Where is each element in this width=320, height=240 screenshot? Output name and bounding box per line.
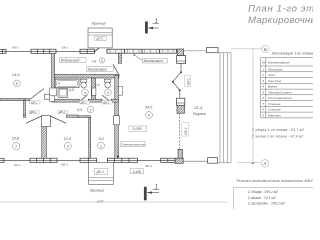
table rows (261, 67, 292, 117)
wall V3 lower (115, 125, 119, 159)
svg-text:ДН-1: ДН-1 (95, 37, 103, 41)
label Kanalizatsia 2 with leader (133, 54, 167, 63)
room circle 1 (98, 142, 105, 149)
svg-text:8,9: 8,9 (77, 108, 82, 112)
label OK-2 rotated upper (185, 75, 191, 86)
wall V2 (91, 78, 95, 99)
svg-text:ДВ-1: ДВ-1 (58, 110, 66, 114)
svg-text:15,8: 15,8 (12, 136, 20, 140)
svg-text:3: 3 (107, 91, 110, 95)
wall V3 main (115, 75, 119, 115)
terrace top edge (184, 50, 207, 52)
svg-text:А: А (263, 161, 267, 166)
window OK-2 dashed (179, 113, 181, 149)
wall H1 (55, 74, 119, 78)
svg-text:Ванна: Ванна (268, 85, 277, 89)
window bottom mid (107, 158, 137, 162)
svg-text:ОК-2: ОК-2 (186, 78, 190, 85)
terrace pier bottom (208, 158, 218, 164)
svg-text:Σ застройки - 145,2 м2: Σ застройки - 145,2 м2 (247, 202, 285, 206)
svg-text:Спальня: Спальня (268, 102, 281, 106)
window top far-left (0, 49, 6, 53)
svg-text:8: 8 (262, 108, 264, 112)
svg-text:План 1-го этажа: План 1-го этажа (248, 4, 313, 15)
label DV-1 a (30, 101, 40, 105)
window bottom mid-left (80, 158, 97, 162)
boxes on V1 (50, 88, 57, 102)
terrace bottom edge (183, 160, 207, 162)
section marker bottom (144, 187, 159, 200)
door leaf room3 (102, 95, 111, 102)
svg-text:ОК-1: ОК-1 (14, 163, 21, 167)
door jamb (106, 49, 108, 53)
svg-text:34,5: 34,5 (145, 104, 154, 109)
svg-text:Электричество: Электричество (122, 143, 146, 147)
kitchen sink (118, 86, 122, 95)
svg-text:21,4: 21,4 (193, 105, 203, 110)
terrace step lines (218, 53, 231, 163)
label Electrichestvo with leader (117, 141, 146, 157)
svg-text:Б: Б (264, 47, 267, 52)
svg-text:Прихожая: Прихожая (268, 67, 283, 71)
door leaf room4 (79, 95, 87, 102)
terrace pier top (207, 48, 219, 53)
svg-text:1: 1 (262, 67, 264, 71)
svg-text:2,4: 2,4 (94, 83, 100, 87)
label level -0,450 (130, 169, 143, 174)
window bottom far-left (0, 158, 4, 162)
svg-text:4: 4 (262, 85, 264, 89)
section marker top (146, 22, 160, 33)
room circle 8 (13, 80, 20, 87)
wall H3 right (67, 115, 79, 117)
door leaf room8 (30, 89, 44, 100)
svg-text:ОК-1: ОК-1 (12, 46, 19, 50)
svg-text:5: 5 (101, 59, 103, 63)
door DN-1 top leaf (95, 42, 105, 51)
svg-text:ОК-1: ОК-1 (61, 45, 68, 49)
svg-text:6,2: 6,2 (99, 137, 105, 141)
grid bubble B (262, 45, 270, 53)
window bottom right (161, 158, 175, 162)
svg-text:Канализация: Канализация (144, 59, 164, 63)
door pier box (42, 116, 51, 127)
wall H2 piece (88, 99, 102, 102)
room circle 6 (146, 112, 153, 119)
label level 0,000 (129, 126, 147, 131)
corner pier vertical (178, 149, 183, 158)
wall H2 left (0, 99, 25, 101)
wall H2 stub (25, 99, 30, 101)
svg-text:7: 7 (262, 102, 264, 106)
svg-text:Σ жилая - 74,1 м2: Σ жилая - 74,1 м2 (247, 196, 276, 200)
svg-text:ЦТП: ЦТП (97, 200, 104, 204)
window top third (80, 49, 95, 53)
wall V5 (42, 127, 47, 159)
svg-text:9: 9 (67, 145, 70, 149)
svg-text:Водопровод: Водопровод (61, 59, 80, 63)
pier top window box (177, 56, 186, 64)
svg-text:Крыльцо: Крыльцо (90, 188, 104, 192)
grid axis tick (251, 162, 254, 165)
wall V6 (24, 101, 26, 116)
room circle 4 (82, 89, 89, 96)
washing machine (58, 88, 68, 97)
wall V4 (89, 117, 91, 158)
svg-text:Технико-экономические показате: Технико-экономические показатели ИЖС (236, 179, 313, 183)
french door OK-2 leaves (172, 63, 182, 98)
pier mid hatched (177, 105, 185, 113)
wall V3 top (118, 53, 121, 63)
svg-text:Σ общая 1-го этажа - 84,7 м2: Σ общая 1-го этажа - 84,7 м2 (251, 128, 304, 132)
door leaf box room8 (45, 94, 52, 99)
grid bubble A (261, 160, 269, 168)
technical block rows (247, 190, 285, 206)
svg-text:Экспликация 1-го этажа: Экспликация 1-го этажа (272, 51, 313, 55)
svg-text:2: 2 (88, 108, 92, 112)
svg-text:4,5: 4,5 (69, 88, 75, 92)
svg-text:Σ жилая 1-го этажа - 42,4 м2: Σ жилая 1-го этажа - 42,4 м2 (251, 134, 304, 138)
svg-text:Σ общая - 106,1 м2: Σ общая - 106,1 м2 (247, 190, 278, 194)
svg-text:Холл: Холл (267, 73, 275, 77)
svg-text:0,000: 0,000 (132, 127, 142, 131)
frame line bottom (0, 201, 228, 203)
room circle 9 (64, 143, 71, 150)
svg-text:6: 6 (262, 96, 264, 100)
svg-text:ОК-1: ОК-1 (61, 163, 68, 167)
svg-text:2: 2 (261, 73, 264, 77)
pier top hatched (177, 49, 184, 56)
room circle 5 (99, 58, 104, 63)
svg-text:Терраса: Терраса (193, 112, 206, 116)
label Vodoprovod (59, 58, 86, 63)
svg-text:ОК-1: ОК-1 (145, 164, 152, 168)
svg-text:1: 1 (100, 144, 102, 148)
wall line (57, 159, 80, 161)
svg-text:8: 8 (16, 82, 19, 86)
room circle 7 (13, 143, 20, 150)
svg-text:6: 6 (148, 114, 151, 118)
label DN-1 top box (95, 36, 107, 40)
technical block box (233, 188, 318, 214)
grid axis line vertical (252, 49, 254, 163)
svg-text:Гостиная-Кухня: Гостиная-Кухня (268, 96, 292, 100)
svg-text:ДВ-1: ДВ-1 (29, 110, 37, 114)
corner block (175, 158, 183, 163)
top wall band with mullions (107, 49, 177, 53)
svg-text:ДВ-1: ДВ-1 (30, 101, 38, 105)
svg-text:4: 4 (84, 91, 86, 95)
label DN-1 bottom box (94, 169, 107, 175)
door jamb (106, 158, 108, 162)
toilet room4 (80, 79, 86, 88)
wall H2 end (111, 99, 118, 102)
room circle 2 (87, 106, 93, 112)
toilet room3 (104, 79, 110, 88)
wall H3b (78, 116, 90, 118)
grid axis line A horizontal (237, 162, 261, 164)
wall H3 left stub (24, 115, 26, 117)
label DV-1 e (102, 101, 112, 105)
svg-text:7: 7 (15, 145, 18, 149)
svg-text:3: 3 (262, 79, 264, 83)
svg-text:ОК-2: ОК-2 (184, 127, 188, 134)
door leaf room7 (26, 116, 42, 123)
door DV-2 leaf box (114, 116, 120, 125)
label DV-1 b (29, 110, 39, 114)
wall line (56, 50, 80, 52)
bathtub (55, 79, 79, 87)
wall line (6, 50, 31, 52)
window OK-1 top second (31, 49, 56, 53)
svg-text:12,0: 12,0 (64, 137, 72, 141)
door leaf V3 (113, 64, 119, 75)
wall line (4, 159, 30, 161)
svg-text:ДВ-1: ДВ-1 (80, 101, 88, 105)
label DV-1 d (79, 101, 89, 105)
svg-text:7,8: 7,8 (91, 59, 96, 63)
svg-text:-0,450: -0,450 (132, 170, 142, 174)
label OK-2 rotated lower (182, 123, 189, 136)
wall V1 (52, 53, 55, 99)
grid axis line B horizontal (231, 48, 261, 50)
niche box in V2 (92, 88, 96, 95)
svg-text:5: 5 (262, 90, 264, 94)
svg-text:№: № (262, 61, 266, 65)
svg-text:Маркировочный план: Маркировочный план (248, 15, 313, 26)
svg-text:ДН-1: ДН-1 (96, 170, 105, 174)
wall H2 right (52, 99, 80, 102)
svg-text:Канализация: Канализация (88, 67, 108, 71)
pier mid window box (177, 98, 185, 105)
window OK-1 bottom left (30, 158, 57, 162)
label DV-1 c (58, 110, 68, 114)
svg-text:9: 9 (262, 113, 264, 117)
svg-text:1: 1 (155, 185, 158, 191)
wall line (138, 159, 161, 161)
svg-text:Спальня: Спальня (268, 108, 281, 112)
door leaf room9 (50, 116, 66, 123)
room circle 3 (105, 89, 112, 96)
svg-text:Сан.Узел: Сан.Узел (268, 79, 282, 83)
svg-text:14,6: 14,6 (12, 72, 21, 77)
svg-text:Тепловой пункт: Тепловой пункт (268, 90, 292, 94)
label Kanalizatsia 1 (86, 67, 113, 72)
door DN-1 bottom leaf (97, 162, 107, 172)
svg-text:Крыльцо: Крыльцо (92, 22, 106, 26)
svg-text:1: 1 (155, 19, 158, 25)
svg-text:Наименование: Наименование (268, 61, 290, 65)
svg-text:Кабинет: Кабинет (268, 113, 281, 117)
svg-text:ДВ-1: ДВ-1 (102, 101, 110, 105)
